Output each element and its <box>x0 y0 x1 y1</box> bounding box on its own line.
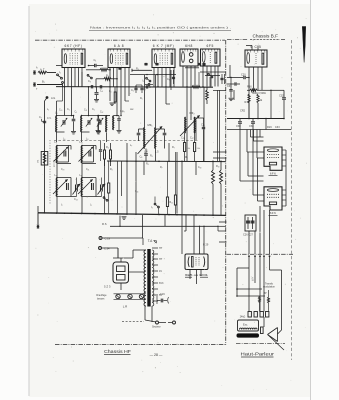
svg-text:MF₁: MF₁ <box>148 123 153 127</box>
stage5 wires below V5 <box>202 66 204 87</box>
svg-text:3: 3 <box>71 51 72 53</box>
wire mid speaker <box>237 288 262 290</box>
svg-text:R₈: R₈ <box>185 156 188 159</box>
svg-text:R₄: R₄ <box>136 67 139 70</box>
capacitor C6 pair <box>135 85 137 88</box>
svg-text:I₅: I₅ <box>143 80 145 83</box>
transformer core <box>147 249 150 307</box>
resistor speaker2 <box>268 297 270 303</box>
svg-text:24kΩ: 24kΩ <box>240 317 246 319</box>
wire bus bf1 <box>248 78 250 119</box>
bus mid <box>107 160 226 163</box>
svg-text:3: 3 <box>187 51 188 53</box>
svg-text:4: 4 <box>211 51 212 53</box>
trimmer C13 stage1 <box>75 185 77 192</box>
svg-text:↓: ↓ <box>285 283 286 286</box>
svg-text:R16: R16 <box>247 84 252 88</box>
svg-text:R₄: R₄ <box>106 146 109 149</box>
svg-text:C19: C19 <box>160 293 165 296</box>
svg-text:I₄: I₄ <box>90 205 92 207</box>
svg-text:6: 6 <box>217 51 218 53</box>
svg-text:R₇: R₇ <box>172 146 175 149</box>
svg-text:2: 2 <box>67 51 68 53</box>
terminal bottom left <box>37 213 39 224</box>
wire x169 <box>168 143 170 161</box>
MF2 secondary coil <box>193 117 196 133</box>
svg-text:R₅: R₅ <box>140 98 143 100</box>
switch I2 <box>62 82 64 84</box>
avc extra h-line <box>213 90 226 92</box>
heater wire stage3 upper <box>132 69 152 71</box>
svg-text:R₄: R₄ <box>110 169 113 171</box>
svg-text:4: 4 <box>257 52 258 54</box>
speaker magnet dark bar <box>237 333 260 337</box>
cap column x100 <box>100 141 102 150</box>
capacitor C2 on AG wire <box>43 120 46 122</box>
svg-text:C₁₆: C₁₆ <box>135 191 138 193</box>
row A junction dots <box>71 115 72 116</box>
MF2 tuning arrow <box>180 116 200 137</box>
resistor R6 right <box>192 86 200 89</box>
tube 6F6 lower <box>264 187 282 210</box>
bus bf3 <box>227 129 291 131</box>
svg-text:C26 C27: C26 C27 <box>243 234 253 237</box>
svg-text:C32: C32 <box>279 94 284 98</box>
svg-text:6: 6 <box>195 51 196 53</box>
terminal C.19 <box>99 237 102 240</box>
svg-text:3: 3 <box>161 51 162 53</box>
svg-text:1: 1 <box>64 51 65 53</box>
svg-text:C₆: C₆ <box>92 108 95 111</box>
svg-text:MF₂: MF₂ <box>189 111 194 115</box>
voice coil <box>261 327 264 334</box>
trimmer stage2 right <box>100 185 102 192</box>
switch I5 <box>146 77 148 79</box>
svg-text:Nota : Inverseurs I₁ I₂ I₃ I: Nota : Inverseurs I₁ I₂ I₃ I₄ I₅ positio… <box>90 25 231 29</box>
svg-text:I₁: I₁ <box>59 71 61 74</box>
wire from C31 bus to 6F6 grid <box>251 136 264 138</box>
stage4 wires below V4 <box>182 66 184 87</box>
MF2 primary coil <box>184 117 187 133</box>
svg-text:C₁₁: C₁₁ <box>84 110 87 112</box>
svg-text:6F5: 6F5 <box>207 44 214 48</box>
MF1 cap left <box>138 129 140 133</box>
svg-text:C₁₇: C₁₇ <box>190 137 194 140</box>
resistor box R9 <box>194 143 196 152</box>
MF1 cap right <box>164 129 166 133</box>
chain boundary BF top <box>227 38 248 40</box>
svg-text:R₁₀: R₁₀ <box>216 165 220 168</box>
chain boundary BF mid <box>227 253 294 255</box>
MF1 primary coil <box>143 128 146 149</box>
svg-text:modulation: modulation <box>263 286 275 289</box>
switch I3 stage2 <box>87 74 89 76</box>
svg-text:C₉: C₉ <box>122 111 125 113</box>
svg-text:Chassis HF: Chassis HF <box>104 349 131 354</box>
svg-text:L₉: L₉ <box>55 141 57 144</box>
resistor R18 <box>257 94 259 103</box>
tube 6F6 upper <box>264 147 282 170</box>
switch sector <box>145 320 156 322</box>
svg-text:3: 3 <box>117 51 118 53</box>
wires to 6F6 stage <box>246 130 248 153</box>
svg-text:R₆: R₆ <box>150 155 153 158</box>
svg-text:Chassis B.F: Chassis B.F <box>253 34 279 39</box>
svg-text:L₇: L₇ <box>130 144 132 147</box>
svg-text:6H8: 6H8 <box>185 44 193 48</box>
svg-text:C₃: C₃ <box>88 80 91 83</box>
ground symbol on bus <box>122 216 127 218</box>
wires 6F6 right <box>282 149 286 151</box>
tuned circuit L3 <box>57 115 74 117</box>
svg-text:6F6: 6F6 <box>270 211 276 215</box>
svg-text:R₆: R₆ <box>146 163 149 166</box>
svg-text:4: 4 <box>165 51 166 53</box>
svg-text:L₆: L₆ <box>63 138 65 141</box>
svg-text:C₆: C₆ <box>131 89 134 92</box>
svg-text:6F6: 6F6 <box>270 172 276 176</box>
svg-text:R₉: R₉ <box>198 86 201 89</box>
IF coil s2-upper <box>82 145 96 147</box>
switch I4 <box>208 73 210 75</box>
AG down wire <box>45 98 48 101</box>
svg-text:B₁: B₁ <box>42 80 45 84</box>
terre terminal T <box>33 83 36 86</box>
svg-text:C₁₃: C₁₃ <box>74 198 78 201</box>
wires magic eye bottom <box>189 270 191 280</box>
svg-text:R 29: R 29 <box>203 244 209 247</box>
svg-text:L₇: L₇ <box>55 174 57 177</box>
svg-text:1: 1 <box>154 51 155 53</box>
svg-text:lampes: lampes <box>97 298 105 300</box>
stage3 wires below V3 <box>153 68 155 87</box>
interconnect wires crossing divider <box>213 151 227 153</box>
switch I1 <box>57 74 59 76</box>
svg-text:4: 4 <box>120 51 121 53</box>
svg-text:R₇: R₇ <box>160 167 163 169</box>
antenna terminal A <box>33 71 36 74</box>
mechanical link dashes <box>122 321 144 323</box>
svg-text:I₃: I₃ <box>151 206 153 209</box>
stubs to BF <box>218 225 226 227</box>
switch I3 lower <box>154 203 156 205</box>
resistor speaker1 <box>259 297 261 303</box>
resistor R10 <box>212 170 215 184</box>
svg-text:HT: HT <box>159 247 163 250</box>
column x104-121 details <box>104 159 106 213</box>
svg-text:C₂₀: C₂₀ <box>61 169 65 171</box>
svg-text:C.V.: C.V. <box>47 117 52 120</box>
terminal C.34 <box>99 247 102 250</box>
svg-text:C₄: C₄ <box>100 90 103 93</box>
wires below 6C5 <box>248 67 250 78</box>
bottom wire stage1 <box>57 196 77 198</box>
svg-text:6: 6 <box>264 52 265 54</box>
double vertical right <box>217 90 219 161</box>
wires to bus <box>126 143 128 214</box>
svg-text:2: 2 <box>184 51 185 53</box>
wires to cone <box>263 317 265 327</box>
svg-text:C₉: C₉ <box>167 78 170 81</box>
svg-text:1: 1 <box>110 51 111 53</box>
svg-text:L₁: L₁ <box>47 109 49 111</box>
feed stage2 rowA <box>88 87 90 116</box>
verticals to magic eye <box>193 215 195 254</box>
svg-text:C₂₁: C₂₁ <box>86 169 90 171</box>
wire stub left <box>37 206 39 213</box>
svg-text:Vol.: Vol. <box>38 159 40 163</box>
wire MF1 sec down <box>155 149 157 162</box>
wire HP right loop <box>270 269 282 271</box>
svg-text:C₈: C₈ <box>140 156 143 159</box>
stage2 wires below V2 <box>109 68 111 87</box>
svg-text:L₁₀: L₁₀ <box>80 141 83 144</box>
MF1 secondary coil <box>154 128 157 149</box>
svg-text:5 Z 3: 5 Z 3 <box>104 285 111 289</box>
svg-text:Chauffage: Chauffage <box>96 295 107 297</box>
magic eye 6E5 <box>185 254 208 270</box>
electrolytic caps box <box>245 215 256 231</box>
resistor R11 <box>220 170 223 184</box>
svg-text:CR2: CR2 <box>240 109 246 113</box>
svg-text:2: 2 <box>113 51 114 53</box>
output transformer windings <box>248 312 251 318</box>
terminal A-G dot <box>46 96 49 99</box>
wires into speaker section <box>248 255 250 257</box>
coil L6 <box>112 116 115 130</box>
speaker cone <box>268 328 278 342</box>
resistor box R12 <box>166 197 168 207</box>
svg-text:4V: 4V <box>159 270 162 273</box>
capacitor C7b <box>147 83 149 86</box>
svg-text:C₁: C₁ <box>94 58 97 62</box>
svg-text:H.P.: H.P. <box>250 277 253 282</box>
svg-text:R₁₂: R₁₂ <box>170 202 173 204</box>
svg-text:C₁₀: C₁₀ <box>59 110 62 112</box>
svg-text:6V3: 6V3 <box>159 282 164 285</box>
wire x271 <box>270 90 272 118</box>
svg-text:C₅: C₅ <box>67 108 70 111</box>
cap C16b right edge <box>221 74 223 84</box>
coil L5 oscillator trimmer left <box>98 115 110 117</box>
svg-text:HT: HT <box>159 258 163 261</box>
svg-text:Secteur: Secteur <box>152 326 161 329</box>
bus bf2 <box>227 118 284 120</box>
svg-text:R19: R19 <box>267 126 272 129</box>
resistor R7 vertical <box>206 90 209 100</box>
svg-text:C31: C31 <box>249 124 254 128</box>
svg-text:C₂: C₂ <box>39 116 42 119</box>
svg-text:5: 5 <box>124 51 125 53</box>
chain boundary vertical divider <box>225 40 227 345</box>
rectifier 5Z3 <box>113 262 129 283</box>
capacitor C7 stage3 <box>145 85 147 88</box>
wire C34 to transformer <box>117 248 119 258</box>
svg-text:L₈: L₈ <box>80 174 82 177</box>
svg-text:R.S: R.S <box>102 222 107 226</box>
potentiometer box on AG wire <box>41 152 48 166</box>
MF1 tuning arrow <box>138 127 163 155</box>
bottom wire stage2 <box>82 196 102 198</box>
chain boundary HF bottom <box>55 344 226 346</box>
svg-text:C₅: C₅ <box>75 112 78 114</box>
wires BF left column vertical <box>229 65 231 78</box>
connector blobs under tubes <box>144 63 147 66</box>
svg-text:4: 4 <box>75 51 76 53</box>
svg-text:— 28 —: — 28 — <box>150 353 163 357</box>
wires under 6H8 <box>185 67 199 69</box>
left column C36 <box>230 78 232 90</box>
extra verticals below diode stage <box>198 72 200 87</box>
IF coil s1-upper <box>57 145 71 147</box>
cap pair x171 <box>170 70 172 90</box>
svg-text:A G: A G <box>51 96 55 100</box>
svg-text:2: 2 <box>205 51 206 53</box>
svg-text:A. T: A. T <box>40 68 45 72</box>
resistor R5 column <box>104 150 106 159</box>
chain boundary BF right <box>291 40 293 360</box>
feed stage1 coil <box>56 101 58 116</box>
svg-text:Haut-Parleur: Haut-Parleur <box>241 351 275 356</box>
svg-text:L₈: L₈ <box>86 138 88 141</box>
resistor R2 <box>86 69 100 71</box>
svg-text:C₇: C₇ <box>143 88 146 91</box>
svg-text:6K7 (HF): 6K7 (HF) <box>65 44 83 48</box>
svg-text:2: 2 <box>250 52 251 54</box>
wire primary top <box>133 249 146 251</box>
wires down to chain <box>248 231 250 254</box>
svg-text:5: 5 <box>169 51 170 53</box>
svg-text:6 A 8: 6 A 8 <box>114 44 124 48</box>
field coil box Exc <box>238 320 259 331</box>
resistor box R13 <box>174 195 176 205</box>
svg-text:R₁: R₁ <box>109 91 112 93</box>
wires HF right column <box>195 161 197 175</box>
gang link dashed 2 <box>49 140 51 205</box>
switch I6 <box>103 197 105 199</box>
svg-text:HP: HP <box>263 292 267 295</box>
svg-text:L₃: L₃ <box>55 112 57 115</box>
ground bus main <box>38 213 226 216</box>
svg-text:C36: C36 <box>227 85 232 88</box>
svg-text:5: 5 <box>193 51 194 53</box>
svg-text:2: 2 <box>157 51 158 53</box>
resistor R4 vertical <box>114 92 116 102</box>
svg-text:C₁₅: C₁₅ <box>181 137 185 140</box>
chain boundary BF bottom <box>236 343 285 345</box>
tuned circuit L4 <box>82 115 99 117</box>
secteur plug <box>144 306 146 320</box>
transformer primary winding <box>144 250 146 306</box>
grid cap wire V1 <box>56 65 62 67</box>
svg-text:C₁₈: C₁₈ <box>198 167 201 169</box>
capacitor C16 coupling <box>227 83 235 85</box>
svg-text:C30: C30 <box>236 124 241 128</box>
svg-text:3: 3 <box>254 52 255 54</box>
svg-text:L.R: L.R <box>123 305 128 309</box>
wires above 6C5 <box>251 46 253 51</box>
svg-text:6 K 7 (MF): 6 K 7 (MF) <box>153 44 175 48</box>
capacitor C4 <box>99 85 101 88</box>
dashed screen line <box>54 139 199 141</box>
svg-text:C₁₂: C₁₂ <box>100 112 103 114</box>
resistor box R8 <box>184 143 186 152</box>
transformer secondary taps <box>152 247 158 249</box>
svg-text:5: 5 <box>79 51 80 53</box>
chain boundary HF top <box>35 39 225 41</box>
resistor R1 antenna <box>38 71 47 74</box>
AVC bus <box>56 86 213 89</box>
svg-text:3: 3 <box>208 51 209 53</box>
stage1 wires below V1 <box>64 68 66 88</box>
svg-text:I₂: I₂ <box>61 205 63 207</box>
resistor box R15 <box>108 183 110 193</box>
capacitor C2 to ground <box>96 87 98 92</box>
svg-text:Exc.: Exc. <box>243 322 248 326</box>
wires 6F6 left lower <box>240 180 264 182</box>
heater wire stage3 long <box>130 74 176 76</box>
svg-text:50kΩ 0,5MΩ: 50kΩ 0,5MΩ <box>252 92 266 95</box>
svg-text:C33: C33 <box>275 126 280 129</box>
